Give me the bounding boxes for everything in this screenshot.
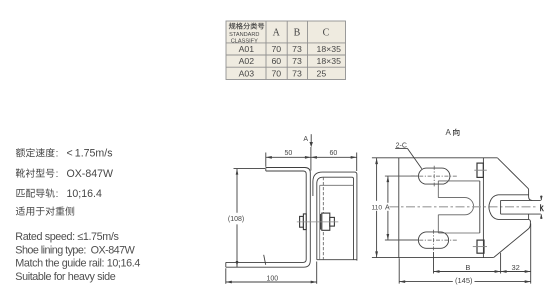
dimension 100 width bbox=[226, 262, 317, 284]
svg-text:A03: A03 bbox=[239, 68, 255, 78]
gusset bottom diagonal bbox=[494, 221, 531, 257]
svg-text:A02: A02 bbox=[239, 56, 255, 66]
svg-text:Shoe lining type: OX-847W: Shoe lining type: OX-847W bbox=[15, 244, 135, 256]
t-bolt bottom (front) bbox=[473, 240, 487, 253]
svg-text:18×35: 18×35 bbox=[317, 44, 342, 54]
dimension 110 bbox=[372, 158, 383, 257]
extension lines bottom bbox=[399, 224, 531, 284]
svg-text:STANDARD: STANDARD bbox=[229, 32, 259, 38]
svg-text:B: B bbox=[294, 27, 301, 38]
leader 2-C bbox=[395, 143, 422, 169]
svg-text:(145): (145) bbox=[455, 276, 473, 285]
break tick on flange bbox=[264, 255, 266, 265]
svg-text:B: B bbox=[465, 263, 470, 272]
svg-text:70: 70 bbox=[271, 44, 281, 54]
dimension (108) height bbox=[228, 169, 265, 267]
table header A B C bbox=[273, 27, 330, 38]
t-bolt top (front) bbox=[474, 163, 487, 177]
svg-text:A: A bbox=[446, 128, 452, 137]
guide rail blade bbox=[501, 200, 541, 214]
table header cell: standard classify bbox=[229, 23, 264, 30]
svg-text:60: 60 bbox=[271, 56, 281, 66]
svg-text:< 1.75m/s: < 1.75m/s bbox=[67, 147, 113, 159]
svg-text:73: 73 bbox=[292, 44, 302, 54]
svg-text:73: 73 bbox=[292, 56, 302, 66]
mounting plate (front view) bbox=[372, 158, 498, 258]
shoe lining block bbox=[438, 181, 480, 233]
section arrow A (side view) bbox=[303, 134, 313, 147]
dimension 50 (left flange) bbox=[266, 147, 357, 171]
svg-text:OX-847W: OX-847W bbox=[67, 168, 114, 180]
svg-text:(108): (108) bbox=[228, 216, 244, 223]
slot 2-C top bbox=[411, 166, 458, 187]
svg-text:73: 73 bbox=[292, 68, 302, 78]
bracket profile (side view) bbox=[226, 168, 310, 268]
svg-text:Suitable for heavy side: Suitable for heavy side bbox=[15, 271, 115, 283]
guide rail head bbox=[489, 195, 531, 222]
dimension (145) bbox=[399, 276, 531, 285]
svg-text:A01: A01 bbox=[239, 44, 255, 54]
svg-text:A: A bbox=[303, 136, 308, 143]
svg-text:32: 32 bbox=[512, 263, 520, 272]
svg-text:100: 100 bbox=[267, 275, 279, 282]
hidden line (lining face) bbox=[322, 177, 324, 260]
svg-text:Match the guide rail: 10;16.4: Match the guide rail: 10;16.4 bbox=[15, 258, 140, 270]
svg-text:Rated speed: ≤1.75m/s: Rated speed: ≤1.75m/s bbox=[15, 231, 119, 243]
svg-text:18×35: 18×35 bbox=[317, 56, 342, 66]
slot 2-C bottom bbox=[411, 230, 458, 251]
bolt with nut (side view) bbox=[300, 213, 335, 230]
table row A01 bbox=[239, 44, 342, 54]
table row A03 bbox=[239, 68, 327, 78]
dimension A (slot spacing) bbox=[385, 176, 419, 240]
table row A02 bbox=[239, 56, 342, 66]
rail width dim (16) bbox=[540, 196, 543, 220]
dimension 32 bbox=[501, 263, 531, 273]
dimension B bbox=[434, 263, 501, 273]
chinese spec text bbox=[16, 147, 113, 215]
svg-text::: : bbox=[56, 169, 59, 180]
svg-text:A: A bbox=[273, 27, 281, 38]
svg-text:70: 70 bbox=[271, 68, 281, 78]
svg-text::: : bbox=[56, 148, 59, 159]
svg-text:110: 110 bbox=[372, 204, 383, 211]
svg-text:50: 50 bbox=[285, 150, 293, 157]
english spec text bbox=[15, 231, 140, 283]
svg-text:60: 60 bbox=[330, 150, 338, 157]
svg-text:A: A bbox=[385, 204, 390, 211]
spec table bbox=[226, 21, 346, 80]
svg-text:C: C bbox=[323, 27, 330, 38]
gusset top diagonal bbox=[498, 158, 533, 200]
label A view bbox=[446, 128, 460, 137]
main centerline bbox=[390, 206, 537, 208]
bolt centerline bbox=[297, 221, 339, 223]
shoe housing (side view) bbox=[313, 172, 357, 261]
svg-text:25: 25 bbox=[317, 68, 327, 78]
svg-text:10;16.4: 10;16.4 bbox=[67, 188, 102, 200]
svg-text::: : bbox=[56, 189, 59, 200]
